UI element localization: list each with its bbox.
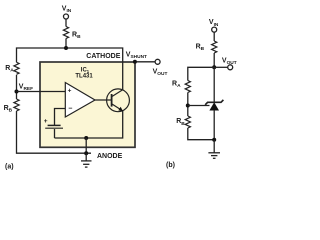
wire top rail (a): [17, 48, 123, 90]
wire ref to op-amp: [17, 91, 66, 93]
junction dot bottom: [84, 151, 88, 155]
wire bottom rail (b): [188, 128, 214, 140]
ground (b): [213, 140, 215, 153]
terminal VOUT (b): [228, 65, 233, 70]
wire anode pin down: [85, 138, 87, 153]
wire op-amp output to base: [95, 99, 112, 101]
node ref divider: [186, 104, 190, 108]
transistor emitter with arrow: [112, 104, 123, 111]
svg-text:+: +: [44, 118, 48, 125]
zener cathode bar: [205, 100, 223, 105]
terminal VIN (a): [64, 14, 69, 19]
wire left rail bottom: [17, 111, 92, 153]
svg-text:(a): (a): [5, 164, 14, 171]
wire Vout tap (a): [135, 61, 155, 63]
resistor RB lower (b): [185, 116, 190, 128]
svg-text:ANODE: ANODE: [97, 153, 123, 160]
wire: [187, 93, 189, 117]
TL431 IC body box: [40, 62, 135, 147]
junction dot at box corner: [133, 60, 137, 64]
wire emitter down: [55, 111, 123, 138]
op-amp U1 triangle: [65, 83, 95, 118]
transistor base bar: [111, 94, 113, 107]
zener body: [209, 102, 219, 110]
resistor RB series (b): [212, 41, 217, 53]
resistor RA (a): [14, 62, 19, 74]
svg-text:CATHODE: CATHODE: [86, 53, 120, 60]
junction dot: [64, 46, 68, 50]
zener diode (TL431): [213, 67, 215, 102]
node VREF: [15, 90, 19, 94]
wire to VOUT terminal: [214, 66, 228, 68]
capacitor bottom plate: [45, 127, 63, 129]
resistor RA (b): [185, 81, 190, 93]
terminal VOUT (a): [155, 59, 160, 64]
ground (a): [85, 153, 87, 161]
node VOUT (b): [212, 65, 216, 69]
svg-text:+: +: [68, 87, 72, 94]
junction dot bottom (b): [212, 138, 216, 142]
wire: [213, 53, 215, 67]
wire divider branch: [188, 67, 214, 80]
resistor RB lower (a): [14, 99, 19, 111]
wire op-amp minus input: [55, 109, 66, 126]
svg-text:TL431: TL431: [75, 74, 93, 80]
transistor Q1 circle: [107, 89, 130, 112]
transistor collector: [112, 90, 123, 97]
resistor RB series (a): [63, 27, 68, 39]
svg-text:−: −: [68, 106, 72, 113]
wire: [65, 19, 67, 27]
wire zener anode: [213, 110, 215, 140]
wire capacitor to anode rail: [54, 129, 56, 138]
wire: [16, 75, 18, 99]
junction dot anode rail: [84, 136, 88, 140]
capacitor top plate: [48, 124, 61, 126]
svg-text:(b): (b): [166, 162, 175, 169]
wire: [65, 39, 67, 49]
terminal VIN (b): [212, 27, 217, 32]
wire: [213, 32, 215, 41]
wire ref to zener: [188, 105, 210, 107]
